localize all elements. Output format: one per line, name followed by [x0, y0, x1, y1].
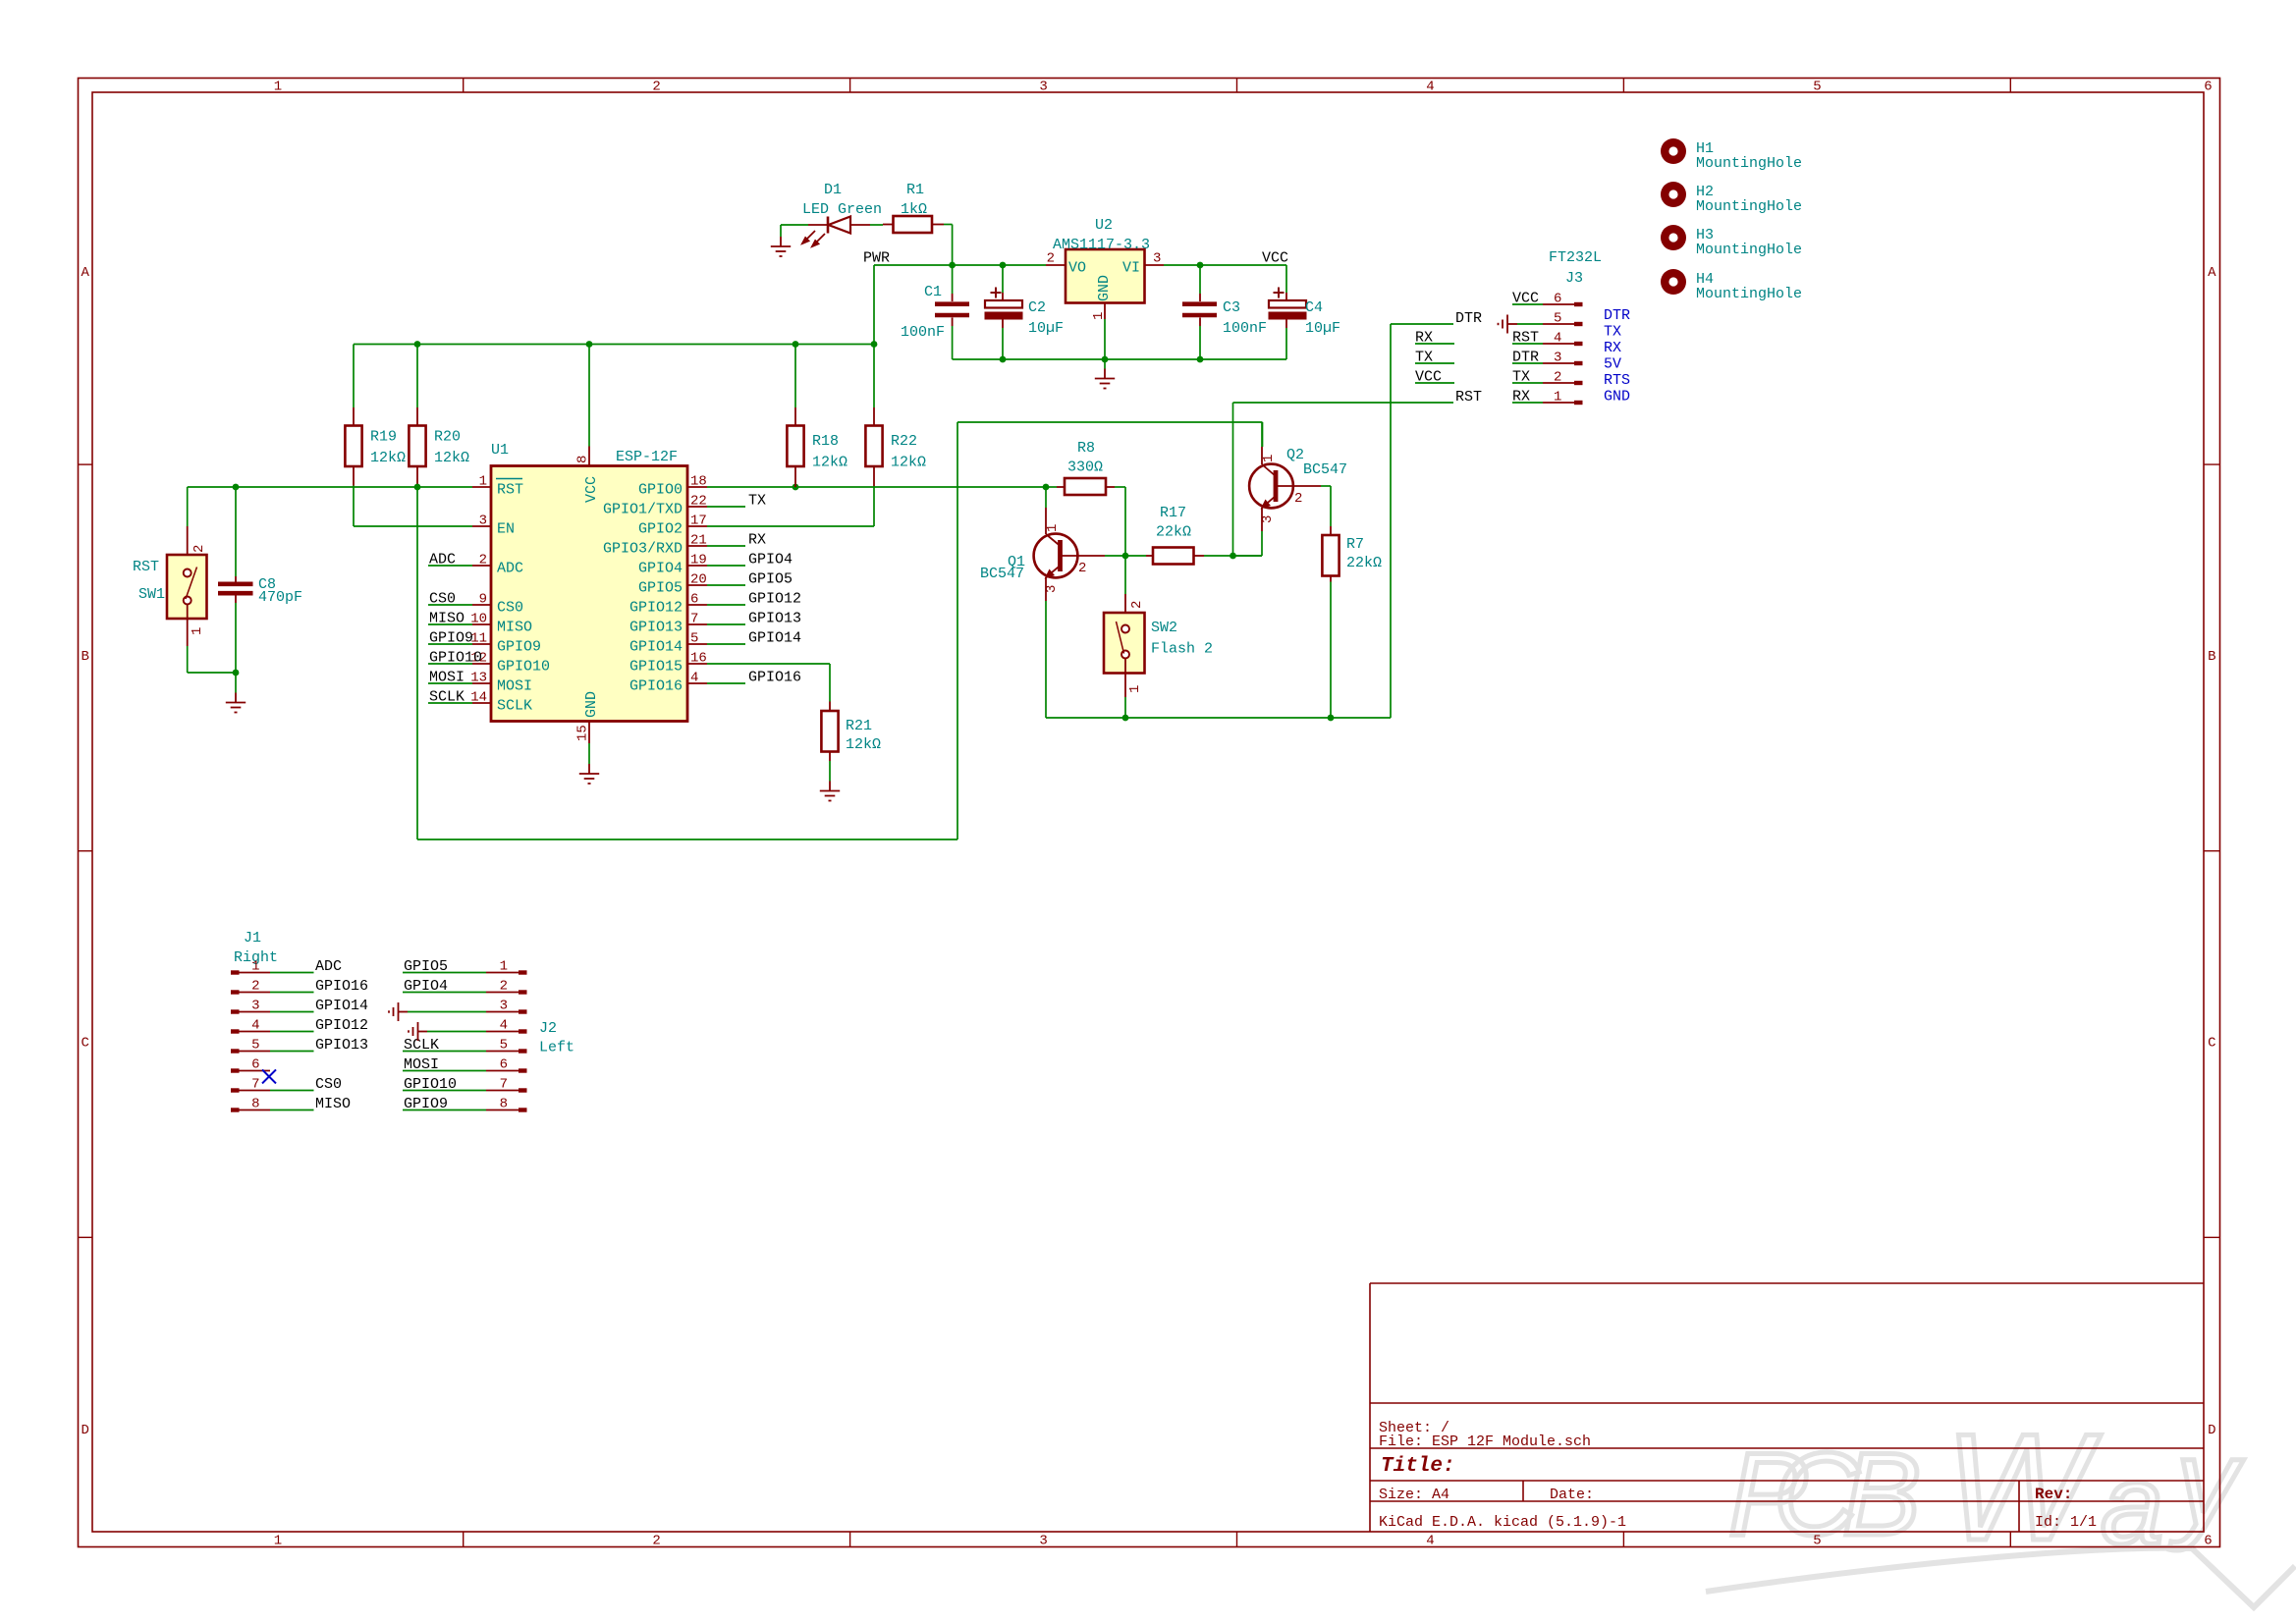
wire/label GPIO10 stub (U1 left) — [428, 650, 482, 667]
svg-text:MOSI: MOSI — [429, 670, 465, 686]
wire U1 VCC pin8 — [588, 345, 590, 447]
svg-text:22: 22 — [690, 494, 707, 510]
wire/label TX stub (J3 left) — [1415, 350, 1454, 366]
svg-text:VO: VO — [1068, 260, 1086, 277]
svg-text:2: 2 — [1047, 251, 1055, 267]
svg-text:GPIO12: GPIO12 — [315, 1017, 368, 1034]
svg-text:6: 6 — [690, 592, 698, 608]
junction RST/C8 — [233, 484, 240, 491]
svg-text:3: 3 — [1260, 515, 1276, 523]
svg-text:RTS: RTS — [1604, 372, 1630, 389]
svg-text:GPIO13: GPIO13 — [629, 620, 683, 636]
svg-text:TX: TX — [748, 493, 766, 510]
svg-text:C: C — [81, 1036, 88, 1052]
svg-text:10µF: 10µF — [1305, 320, 1340, 337]
svg-text:6: 6 — [251, 1057, 259, 1073]
svg-text:21: 21 — [690, 533, 707, 549]
svg-text:PWR: PWR — [863, 250, 890, 267]
svg-text:VCC: VCC — [1415, 369, 1442, 386]
svg-text:7: 7 — [251, 1077, 259, 1093]
wire/label GPIO5 stub (U1 right) — [707, 571, 793, 588]
connector J1 Right — [231, 930, 368, 1112]
svg-text:BC547: BC547 — [1303, 461, 1347, 478]
junction C8/SW1 gnd — [233, 670, 240, 676]
svg-text:D1: D1 — [824, 182, 842, 198]
svg-text:GPIO10: GPIO10 — [497, 659, 550, 676]
svg-text:6: 6 — [2204, 1534, 2212, 1549]
svg-text:7: 7 — [690, 612, 698, 627]
svg-text:GND: GND — [583, 691, 600, 718]
svg-text:MOSI: MOSI — [404, 1056, 439, 1073]
svg-text:100nF: 100nF — [1223, 320, 1267, 337]
junction base/SW2 — [1122, 553, 1129, 560]
svg-text:MountingHole: MountingHole — [1696, 198, 1802, 215]
svg-text:2: 2 — [479, 553, 487, 568]
svg-text:4: 4 — [500, 1018, 508, 1034]
svg-text:13: 13 — [470, 671, 487, 686]
ground (R21) — [829, 782, 831, 791]
svg-text:GPIO1/TXD: GPIO1/TXD — [603, 502, 683, 518]
svg-text:3: 3 — [500, 999, 508, 1014]
resistor R19 — [345, 345, 406, 486]
resistor R17 — [1146, 505, 1204, 565]
svg-text:C1: C1 — [924, 284, 942, 300]
svg-text:J1: J1 — [244, 930, 261, 947]
wire/label CS0 stub (U1 left) — [428, 591, 472, 608]
junction gnd/U2 — [1102, 356, 1109, 363]
wire VCC net — [1105, 250, 1288, 360]
svg-text:2: 2 — [1294, 491, 1302, 507]
svg-text:R8: R8 — [1077, 440, 1095, 457]
hierarchical labels (J3 right) — [1604, 307, 1630, 406]
power flag GND (J2 pin3) — [389, 1002, 486, 1021]
svg-text:RX: RX — [1512, 389, 1530, 406]
svg-text:GPIO5: GPIO5 — [404, 958, 448, 975]
svg-text:2: 2 — [1078, 561, 1086, 576]
svg-text:DTR: DTR — [1604, 307, 1630, 324]
wire RST net — [188, 422, 1263, 839]
wire power ground rail — [953, 358, 1286, 360]
svg-text:1: 1 — [479, 474, 487, 490]
svg-text:ESP-12F: ESP-12F — [616, 449, 678, 465]
svg-text:3: 3 — [479, 514, 487, 529]
junction rail/SW2 — [1122, 715, 1129, 722]
wire/label TX stub (U1 right) — [707, 493, 766, 510]
svg-text:1: 1 — [251, 959, 259, 975]
svg-text:ADC: ADC — [429, 552, 456, 568]
svg-text:12kΩ: 12kΩ — [434, 450, 469, 466]
resistor R22 — [865, 345, 926, 487]
svg-text:1: 1 — [1091, 312, 1107, 320]
wire RST to J3 — [1233, 403, 1454, 556]
svg-text:6: 6 — [500, 1057, 508, 1073]
switch SW2 Flash — [1104, 556, 1213, 718]
svg-text:J2: J2 — [539, 1020, 557, 1037]
wire R8 to base junction — [1124, 487, 1126, 556]
wire VCC top rail — [354, 344, 874, 346]
connector J3 FT232L — [1512, 249, 1602, 406]
svg-text:1: 1 — [274, 80, 282, 95]
svg-text:D: D — [2208, 1423, 2215, 1438]
svg-text:22kΩ: 22kΩ — [1156, 524, 1191, 541]
svg-text:3: 3 — [1554, 351, 1561, 366]
svg-text:5: 5 — [1813, 80, 1821, 95]
svg-text:GPIO0: GPIO0 — [638, 482, 683, 499]
mounting hole H4 — [1661, 269, 1802, 302]
svg-text:5: 5 — [251, 1038, 259, 1054]
ground (U1) — [588, 764, 590, 774]
svg-text:1: 1 — [274, 1534, 282, 1549]
wire R17 right — [1204, 555, 1262, 557]
svg-text:6: 6 — [2204, 80, 2212, 95]
svg-text:D: D — [81, 1423, 88, 1438]
svg-text:GPIO9: GPIO9 — [404, 1096, 448, 1112]
svg-text:GND: GND — [1604, 389, 1630, 406]
svg-text:GPIO16: GPIO16 — [315, 978, 368, 995]
svg-text:VCC: VCC — [1512, 291, 1539, 307]
wire Q2 base to R7 — [1321, 486, 1331, 526]
svg-text:AMS1117-3.3: AMS1117-3.3 — [1053, 237, 1150, 253]
junction rail/R20 — [414, 341, 421, 348]
svg-text:FT232L: FT232L — [1549, 249, 1602, 266]
svg-text:J3: J3 — [1565, 270, 1583, 287]
svg-text:2: 2 — [652, 1534, 660, 1549]
svg-text:8: 8 — [251, 1097, 259, 1112]
svg-text:R22: R22 — [891, 433, 917, 450]
svg-text:5: 5 — [1813, 1534, 1821, 1549]
wire/label RX stub (J3 left) — [1415, 330, 1454, 347]
svg-text:MISO: MISO — [497, 620, 532, 636]
junction rail/R7 — [1328, 715, 1335, 722]
svg-text:C2: C2 — [1028, 299, 1046, 316]
svg-text:GPIO16: GPIO16 — [748, 670, 801, 686]
junction rail/U1-VCC — [586, 341, 593, 348]
svg-text:GPIO12: GPIO12 — [748, 591, 801, 608]
svg-text:GPIO14: GPIO14 — [629, 639, 683, 656]
svg-text:GPIO9: GPIO9 — [429, 630, 473, 647]
svg-text:B: B — [81, 649, 88, 665]
wire PWR net — [863, 225, 1046, 345]
svg-text:2: 2 — [251, 979, 259, 995]
junction RST/R20 — [414, 484, 421, 491]
svg-text:A: A — [81, 265, 89, 281]
svg-text:12kΩ: 12kΩ — [891, 455, 926, 471]
svg-text:8: 8 — [500, 1097, 508, 1112]
ground (SW1/C8) — [226, 673, 246, 713]
svg-text:2: 2 — [500, 979, 508, 995]
svg-text:19: 19 — [690, 553, 707, 568]
svg-text:Title:: Title: — [1381, 1455, 1455, 1478]
capacitor C3 — [1182, 265, 1267, 359]
svg-text:5: 5 — [1554, 311, 1561, 327]
svg-text:3: 3 — [1039, 1534, 1047, 1549]
svg-text:DTR: DTR — [1512, 350, 1539, 366]
svg-text:10µF: 10µF — [1028, 320, 1064, 337]
svg-text:R19: R19 — [370, 429, 397, 446]
svg-text:7: 7 — [500, 1077, 508, 1093]
svg-text:Left: Left — [539, 1040, 574, 1056]
svg-text:VCC: VCC — [1262, 250, 1288, 267]
svg-text:15: 15 — [575, 725, 591, 741]
svg-text:GPIO13: GPIO13 — [315, 1037, 368, 1054]
svg-text:R21: R21 — [846, 718, 872, 734]
svg-text:8: 8 — [575, 456, 591, 463]
junction PWR/C1 — [949, 262, 956, 269]
svg-text:LED Green: LED Green — [802, 201, 882, 218]
ground (LED D1) — [771, 225, 791, 256]
capacitor C2 — [985, 265, 1064, 359]
svg-text:4: 4 — [1426, 80, 1434, 95]
svg-text:SCLK: SCLK — [429, 689, 465, 706]
mounting hole H3 — [1661, 225, 1802, 258]
svg-text:File: ESP 12F Module.sch: File: ESP 12F Module.sch — [1379, 1434, 1591, 1450]
title block — [1370, 1283, 2204, 1532]
svg-text:2: 2 — [1129, 601, 1145, 609]
svg-text:KiCad E.D.A. kicad (5.1.9)-1: KiCad E.D.A. kicad (5.1.9)-1 — [1379, 1514, 1626, 1531]
svg-text:U2: U2 — [1095, 217, 1113, 234]
mounting hole H2 — [1661, 182, 1802, 215]
svg-text:RX: RX — [1415, 330, 1433, 347]
svg-text:Id: 1/1: Id: 1/1 — [2035, 1514, 2097, 1531]
svg-text:17: 17 — [690, 514, 707, 529]
svg-text:TX: TX — [1415, 350, 1433, 366]
svg-text:2: 2 — [1554, 370, 1561, 386]
svg-text:C4: C4 — [1305, 299, 1323, 316]
wire DTR net (emitter rail) — [1046, 324, 1453, 718]
wire/label GPIO9 stub (U1 left) — [428, 630, 473, 647]
svg-text:GPIO5: GPIO5 — [748, 571, 793, 588]
wire GPIO15 net — [707, 664, 830, 702]
wire/label MISO stub (U1 left) — [428, 611, 472, 627]
power flag GND (J3 pin5) — [1499, 315, 1544, 334]
svg-text:12kΩ: 12kΩ — [812, 455, 847, 471]
svg-text:y: y — [2168, 1415, 2244, 1551]
wire/label VCC stub (J3 left) — [1415, 369, 1454, 386]
svg-text:GPIO4: GPIO4 — [404, 978, 448, 995]
svg-text:GPIO12: GPIO12 — [629, 600, 683, 617]
svg-text:4: 4 — [251, 1018, 259, 1034]
junction R17/RST-J3 — [1230, 553, 1236, 560]
svg-text:GPIO13: GPIO13 — [748, 611, 801, 627]
wire/label SCLK stub (U1 left) — [428, 689, 472, 706]
svg-text:1: 1 — [1127, 685, 1143, 693]
svg-text:MountingHole: MountingHole — [1696, 286, 1802, 302]
junction PWR/C2 — [1000, 262, 1007, 269]
svg-text:2: 2 — [191, 545, 207, 553]
wire/label MOSI stub (U1 left) — [428, 670, 472, 686]
wire/label GPIO12 stub (U1 right) — [707, 591, 801, 608]
wire/label ADC stub (U1 left) — [428, 552, 472, 568]
svg-text:CS0: CS0 — [429, 591, 456, 608]
svg-text:12kΩ: 12kΩ — [370, 450, 406, 466]
resistor R1 — [883, 182, 944, 233]
svg-text:GPIO3/RXD: GPIO3/RXD — [603, 541, 683, 558]
svg-text:12kΩ: 12kΩ — [846, 736, 881, 753]
svg-text:GPIO4: GPIO4 — [638, 561, 683, 577]
svg-text:4: 4 — [1554, 331, 1561, 347]
svg-text:3: 3 — [251, 999, 259, 1014]
svg-text:1: 1 — [500, 959, 508, 975]
svg-text:Flash 2: Flash 2 — [1151, 641, 1213, 658]
wire SW1 bottom — [188, 646, 236, 673]
svg-text:SW1: SW1 — [138, 586, 165, 603]
LED D1 — [781, 182, 883, 246]
wire U1 GND pin — [588, 743, 590, 764]
wire GPIO0 net — [707, 486, 1046, 488]
svg-text:Q2: Q2 — [1286, 447, 1304, 463]
svg-text:SCLK: SCLK — [404, 1037, 439, 1054]
junction gnd/C3 — [1197, 356, 1204, 363]
svg-text:3: 3 — [1153, 251, 1161, 267]
svg-text:5: 5 — [690, 631, 698, 647]
svg-text:9: 9 — [479, 592, 487, 608]
svg-text:RST: RST — [1512, 330, 1539, 347]
svg-text:4: 4 — [690, 671, 698, 686]
IC U1 ESP-12F — [470, 442, 707, 743]
svg-text:Rev:: Rev: — [2035, 1486, 2072, 1503]
svg-text:GPIO16: GPIO16 — [629, 678, 683, 695]
wire R19 to EN — [354, 486, 472, 527]
svg-text:R20: R20 — [434, 429, 461, 446]
svg-text:5V: 5V — [1604, 356, 1621, 373]
svg-text:22kΩ: 22kΩ — [1346, 555, 1382, 571]
resistor R18 — [787, 345, 847, 488]
svg-text:CS0: CS0 — [315, 1076, 342, 1093]
svg-text:20: 20 — [690, 572, 707, 588]
svg-text:1: 1 — [190, 627, 205, 635]
svg-text:GPIO10: GPIO10 — [429, 650, 482, 667]
svg-text:A: A — [2208, 265, 2216, 281]
svg-text:GPIO2: GPIO2 — [638, 521, 683, 538]
resistor R8 — [1046, 440, 1125, 495]
svg-text:CS0: CS0 — [497, 600, 523, 617]
svg-text:B: B — [2208, 649, 2215, 665]
svg-text:TX: TX — [1512, 369, 1530, 386]
svg-text:5: 5 — [500, 1038, 508, 1054]
junction GPIO0/R18 — [793, 484, 799, 491]
svg-text:ADC: ADC — [315, 958, 342, 975]
svg-text:BC547: BC547 — [980, 566, 1024, 582]
mounting hole H1 — [1661, 138, 1802, 172]
svg-text:GPIO14: GPIO14 — [315, 998, 368, 1014]
resistor R20 — [409, 345, 469, 487]
svg-text:RST: RST — [133, 559, 159, 575]
svg-text:GPIO15: GPIO15 — [629, 659, 683, 676]
junction VCC/C3 — [1197, 262, 1204, 269]
svg-text:RST: RST — [497, 482, 523, 499]
svg-text:SCLK: SCLK — [497, 698, 532, 715]
svg-text:16: 16 — [690, 651, 707, 667]
svg-text:MountingHole: MountingHole — [1696, 242, 1802, 258]
svg-text:SW2: SW2 — [1151, 620, 1177, 636]
junction rail/R18 — [793, 341, 799, 348]
switch SW1 RST — [133, 526, 207, 646]
wire GPIO2 net — [707, 486, 874, 526]
svg-text:MISO: MISO — [429, 611, 465, 627]
junction GPIO0/Q1 — [1043, 484, 1050, 491]
svg-text:C: C — [2208, 1036, 2215, 1052]
svg-text:2: 2 — [652, 80, 660, 95]
svg-text:1kΩ: 1kΩ — [901, 201, 927, 218]
capacitor C1 — [901, 265, 969, 359]
svg-text:VCC: VCC — [583, 476, 600, 503]
svg-text:10: 10 — [470, 612, 487, 627]
svg-text:GPIO5: GPIO5 — [638, 580, 683, 597]
svg-text:R7: R7 — [1346, 536, 1364, 553]
svg-text:1: 1 — [1554, 390, 1561, 406]
wire/label GPIO4 stub (U1 right) — [707, 552, 793, 568]
svg-text:EN: EN — [497, 521, 515, 538]
capacitor C4 — [1269, 288, 1340, 360]
ground (U2) — [1095, 359, 1115, 389]
svg-text:RST: RST — [1455, 389, 1482, 406]
svg-text:4: 4 — [1426, 1534, 1434, 1549]
watermark PCBWay logo — [1706, 1402, 2295, 1607]
svg-text:14: 14 — [470, 690, 487, 706]
wire/label GPIO16 stub (U1 right) — [707, 670, 801, 686]
svg-text:RX: RX — [748, 532, 766, 549]
svg-text:MISO: MISO — [315, 1096, 351, 1112]
svg-text:3: 3 — [1044, 585, 1060, 593]
svg-text:470pF: 470pF — [258, 589, 302, 606]
wire/label GPIO13 stub (U1 right) — [707, 611, 801, 627]
transistor Q1 BC547 — [980, 487, 1105, 718]
no-connect J1 pin6 — [262, 1069, 276, 1083]
svg-text:U1: U1 — [491, 442, 509, 459]
wire Q1 base / R17 left — [1105, 555, 1146, 557]
wire/label GPIO14 stub (U1 right) — [707, 630, 801, 647]
resistor R21 — [821, 702, 881, 782]
svg-text:GPIO4: GPIO4 — [748, 552, 793, 568]
svg-text:RX: RX — [1604, 340, 1621, 356]
svg-text:R17: R17 — [1160, 505, 1186, 521]
power flag GND (J2 pin4) — [409, 1022, 486, 1041]
svg-text:Date:: Date: — [1550, 1487, 1594, 1503]
svg-text:1: 1 — [1261, 455, 1277, 462]
svg-text:R1: R1 — [906, 182, 924, 198]
svg-text:R18: R18 — [812, 433, 839, 450]
svg-text:VI: VI — [1122, 260, 1140, 277]
resistor R7 — [1322, 526, 1382, 718]
junction gnd/C2 — [1000, 356, 1007, 363]
svg-text:1: 1 — [1045, 524, 1061, 532]
svg-text:GPIO14: GPIO14 — [748, 630, 801, 647]
svg-text:Size: A4: Size: A4 — [1379, 1487, 1449, 1503]
svg-text:GPIO9: GPIO9 — [497, 639, 541, 656]
svg-text:GPIO10: GPIO10 — [404, 1076, 457, 1093]
svg-text:3: 3 — [1039, 80, 1047, 95]
svg-text:MountingHole: MountingHole — [1696, 155, 1802, 172]
svg-text:DTR: DTR — [1455, 310, 1482, 327]
wire/label RX stub (U1 right) — [707, 532, 766, 549]
regulator U2 AMS1117-3.3 — [1046, 217, 1164, 320]
svg-text:ADC: ADC — [497, 561, 523, 577]
connector J2 Left — [403, 958, 574, 1112]
svg-text:TX: TX — [1604, 324, 1621, 341]
capacitor C8 — [218, 487, 302, 673]
transistor Q2 BC547 — [1233, 422, 1348, 556]
svg-text:330Ω: 330Ω — [1067, 460, 1103, 476]
junction rail/PWR — [871, 341, 878, 348]
svg-text:18: 18 — [690, 474, 707, 490]
svg-text:6: 6 — [1554, 292, 1561, 307]
svg-text:100nF: 100nF — [901, 324, 945, 341]
svg-text:MOSI: MOSI — [497, 678, 532, 695]
svg-text:GND: GND — [1096, 275, 1113, 301]
svg-text:C3: C3 — [1223, 299, 1240, 316]
